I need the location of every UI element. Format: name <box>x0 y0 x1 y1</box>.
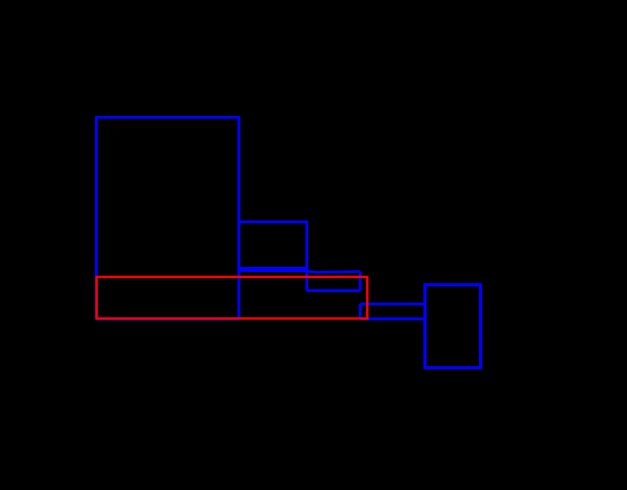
low step top edge (long, slight hand wobble) <box>239 271 360 273</box>
right end block <box>425 285 481 368</box>
shaft stub left edge <box>359 304 362 319</box>
red highlight rectangle <box>97 277 368 319</box>
large blue block (open bottom) <box>96 117 239 318</box>
low step bottom edge <box>307 289 360 292</box>
low step right edge <box>359 271 362 290</box>
shaft bottom edge <box>360 317 425 320</box>
medium block bottom edge <box>239 267 307 270</box>
large block bottom edge (hidden under red baseline) <box>96 317 239 320</box>
medium blue step block <box>239 222 307 291</box>
shaft top edge <box>360 303 425 306</box>
small stray mark on end block left edge <box>424 322 426 328</box>
